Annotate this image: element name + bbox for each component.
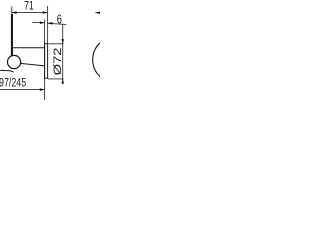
svg-text:97/245: 97/245 xyxy=(0,76,26,90)
svg-text:Ø72: Ø72 xyxy=(51,47,63,75)
svg-text:6: 6 xyxy=(57,13,62,27)
svg-text:71: 71 xyxy=(24,0,34,13)
